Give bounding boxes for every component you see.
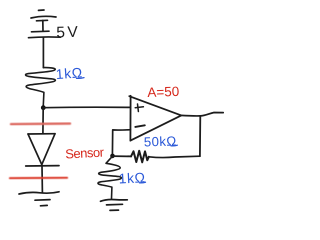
ground G2 (bottom middle): [101, 199, 128, 210]
op-amp - symbol: [135, 125, 145, 127]
feedback vertical wire from output: [199, 116, 201, 156]
wire R2 to feedback vertical: [149, 156, 200, 157]
resistor R1 (vertical squiggle): [26, 68, 56, 106]
wire op-amp - input to feedback junction: [112, 130, 130, 156]
ground G1 (left): [19, 192, 59, 206]
resistor R2 50k (horizontal zigzag): [131, 151, 149, 163]
red highlight line below diode: [10, 177, 67, 180]
resistor R3 1k (vertical squiggle below junction): [98, 156, 121, 199]
wire node to op-amp + input: [43, 106, 129, 108]
voltage source 5V (battery symbol): [29, 10, 61, 38]
svg-text:1kΩ: 1kΩ: [55, 64, 83, 82]
svg-text:Sensor: Sensor: [65, 144, 105, 161]
red highlight line above diode: [11, 122, 70, 125]
svg-text:A=50: A=50: [147, 84, 179, 100]
svg-text:1kΩ: 1kΩ: [118, 169, 146, 186]
wire junction to R2: [113, 155, 132, 157]
node B (feedback junction dot): [110, 154, 115, 159]
wire node to diode: [42, 108, 44, 134]
output wire: [181, 113, 223, 116]
node A (junction dot): [41, 105, 46, 110]
op-amp U1: [129, 96, 181, 141]
wire diode to ground: [41, 166, 43, 193]
svg-text:5V: 5V: [56, 24, 81, 42]
svg-text:50kΩ: 50kΩ: [144, 133, 177, 149]
op-amp + symbol: [135, 104, 143, 112]
diode D1 (photodiode sensor): [26, 134, 59, 166]
wire from source to R1: [42, 38, 44, 68]
